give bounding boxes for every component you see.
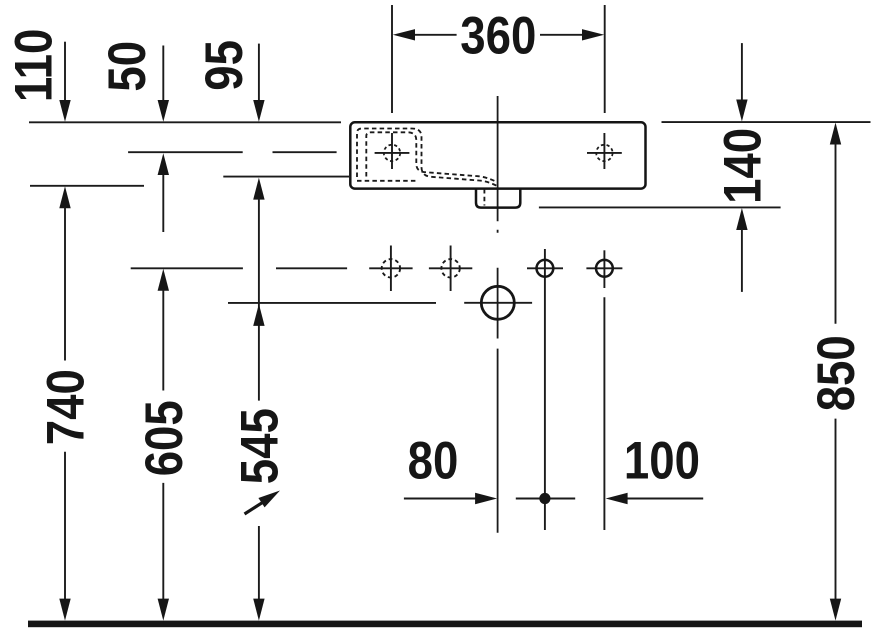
basin floor dashed [357,180,418,182]
node dim 100 [606,431,704,504]
svg-text:605: 605 [135,400,194,476]
wire 140-bottom line [539,206,781,208]
svg-text:100: 100 [624,431,700,490]
wire sink-bottom-level line [30,185,144,187]
svg-text:545: 545 [230,408,289,484]
wire hole-level line [131,267,347,269]
wire centerline (dash-dot) [497,96,499,533]
wire faucet-level line [128,151,337,153]
node dim 605 [135,269,194,621]
sink body [350,122,645,188]
node dim 95 [195,40,265,122]
node dim 850 [807,123,866,621]
wire drain vertical [544,249,546,530]
fixing hole S1 [527,260,563,277]
mounting hole B2 [429,246,472,292]
faucet hole F1 [375,133,410,169]
svg-text:80: 80 [408,431,459,490]
wire hole4 vertical upper [603,250,605,288]
wire 95-level line [223,176,349,178]
sink drain stub [476,189,520,208]
node dim 50 [98,41,169,232]
svg-text:740: 740 [36,369,95,445]
svg-text:95: 95 [195,40,254,91]
overflow hole big [464,286,532,319]
node dim 545 [230,178,289,621]
floor bar [28,621,862,628]
basin outer dashed [357,129,498,187]
faucet hole F2 [587,133,622,169]
basin inner dashed [366,132,497,182]
svg-text:850: 850 [807,335,866,411]
svg-text:50: 50 [98,41,157,92]
svg-text:110: 110 [5,29,64,103]
wire rim line right [662,121,871,123]
mounting hole B1 [369,246,412,292]
node dim 110 [5,29,71,122]
svg-text:360: 360 [460,6,536,65]
wire 545-level line [228,302,436,304]
node dim 740 [36,186,95,620]
node dim 360 [392,5,605,113]
svg-text:140: 140 [713,128,772,204]
fixing hole S2 [586,260,622,277]
drain point dot [516,493,575,504]
node dim 140 [713,43,772,292]
drain stub inner dashed [483,189,485,206]
wire rim line left [29,121,341,123]
node dim 80 [404,431,497,504]
wire hole4 vertical lower [603,297,605,530]
